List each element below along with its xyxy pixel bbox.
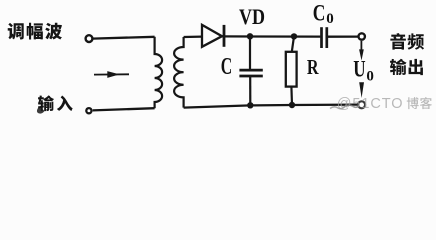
voltage arrow U0 upper xyxy=(359,41,364,61)
junction node C top xyxy=(247,33,253,39)
wire secondary to diode anode xyxy=(184,35,202,38)
svg-text:U: U xyxy=(353,57,366,82)
svg-text:R: R xyxy=(307,56,319,79)
watermark smudge xyxy=(330,105,359,109)
ink smudge below 输 xyxy=(37,107,45,114)
wire bottom xyxy=(184,105,358,108)
svg-text:@51CTO: @51CTO xyxy=(337,96,404,112)
svg-text:0: 0 xyxy=(326,11,334,27)
label 音频 (audio) xyxy=(390,33,424,50)
output terminal bottom xyxy=(358,101,365,108)
output terminal top xyxy=(359,33,365,39)
input terminal top xyxy=(86,35,93,42)
svg-text:VD: VD xyxy=(239,5,265,29)
signal direction arrow xyxy=(94,71,129,78)
transformer secondary winding xyxy=(174,37,184,108)
svg-text:0: 0 xyxy=(366,69,374,85)
svg-text:C: C xyxy=(313,1,326,26)
svg-text:C: C xyxy=(221,54,232,80)
capacitor C0 xyxy=(322,27,327,48)
label U0 xyxy=(353,57,374,85)
resistor R xyxy=(286,36,297,104)
label 输出 (output) xyxy=(390,59,423,75)
wire C0 to output terminal xyxy=(328,35,358,37)
label 输入 (input) xyxy=(38,95,73,111)
input terminal bottom xyxy=(86,108,91,113)
capacitor C xyxy=(239,36,262,105)
junction node R top xyxy=(291,33,297,39)
voltage arrow U0 lower xyxy=(359,82,364,98)
transformer primary winding xyxy=(155,37,163,108)
watermark @51CTO博客 xyxy=(337,96,432,112)
wire top-left xyxy=(93,37,155,39)
diode VD xyxy=(202,25,224,47)
junction node R bottom xyxy=(289,102,295,108)
junction node C bottom xyxy=(247,102,253,108)
wire top (cathode to C0) xyxy=(222,35,321,37)
wire bottom-left xyxy=(93,108,155,110)
label C0 xyxy=(313,1,334,27)
label 调幅波 (AM wave) xyxy=(8,23,62,40)
